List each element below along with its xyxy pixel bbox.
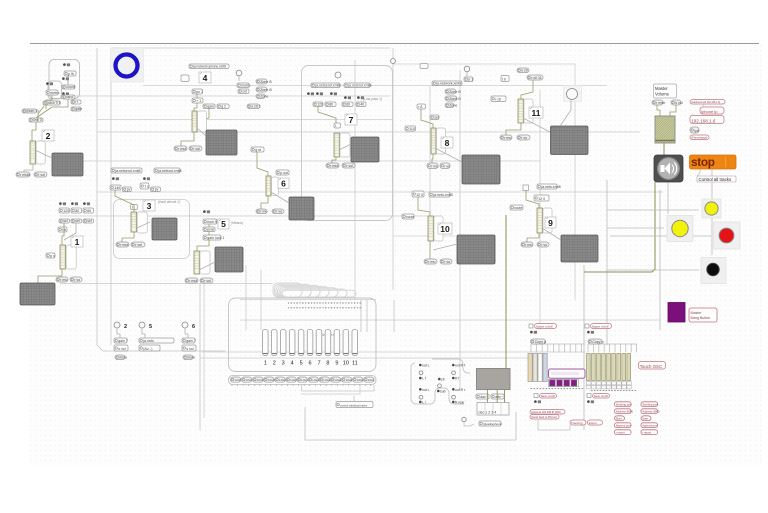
wire preset 5: [142, 328, 145, 338]
svg-text:LtGn: LtGn: [324, 378, 331, 382]
tiny boxes under group B: [587, 382, 632, 389]
message box receive 1b: [70, 277, 82, 282]
svg-text:Save on/off: Save on/off: [541, 394, 555, 398]
wire sec9 b: [527, 233, 539, 242]
svg-text:Address 8000: Address 8000: [616, 410, 634, 414]
svg-text:Copy p: Copy p: [592, 340, 603, 344]
svg-text:+ 1: + 1: [196, 99, 201, 103]
object box pvar 1e: [46, 253, 55, 258]
svg-text:6: 6: [309, 361, 312, 367]
object box random 2d: [62, 95, 75, 99]
message box receive 11a: [500, 135, 512, 140]
dial sec11: [567, 89, 578, 100]
object box num 7a: [313, 102, 323, 107]
toggle touchosc right: [585, 324, 589, 328]
message box receive 11b: [517, 135, 530, 140]
object box t r sec3: [131, 205, 138, 210]
svg-text:2: 2: [124, 324, 127, 330]
gain slider 3: [131, 212, 137, 232]
svg-text:ja.nets: ja.nets: [142, 339, 154, 343]
message box zone B1: [256, 79, 272, 84]
quad label b2b: [452, 400, 465, 404]
radiogroup purple squares: [549, 379, 579, 386]
section 3 glyph b: [143, 177, 150, 180]
track sliders 1-11: [263, 330, 358, 356]
comment master volume: [654, 84, 677, 98]
svg-text:r mu: r mu: [431, 164, 438, 168]
svg-text:LtGn: LtGn: [335, 378, 342, 382]
wire sec9 a: [526, 190, 539, 208]
section 2 tiny glyph a: [63, 63, 70, 66]
svg-text:r vo: r vo: [541, 243, 547, 247]
quad label a2: [419, 388, 430, 392]
svg-text:num 5: num 5: [207, 220, 217, 224]
message box tiny 6: [183, 355, 195, 360]
object box num 10b: [412, 191, 424, 197]
section 7 glyph b: [316, 92, 323, 95]
number panel 5: [200, 251, 210, 274]
wire stop to label: [697, 169, 700, 176]
wire control label up: [353, 396, 355, 401]
svg-text:2: 2: [46, 131, 51, 141]
object box under panel a: [476, 394, 489, 399]
message box receive 5a: [185, 278, 198, 283]
svg-text:r vo: r vo: [444, 260, 450, 264]
wire sec8 b: [432, 154, 433, 163]
wire sec11 dial: [560, 99, 571, 126]
svg-text:ja.netsend.xmt8: ja.netsend.xmt8: [114, 169, 140, 173]
svg-text:Master: Master: [655, 86, 668, 91]
svg-text:r mstr: r mstr: [656, 101, 666, 105]
message gathered ip: [690, 100, 725, 105]
wire preset 6: [185, 328, 188, 338]
wire sec5 b: [208, 231, 210, 235]
message stop button: [690, 155, 737, 169]
message box receive 9a: [521, 242, 533, 247]
svg-text:7: 7: [317, 361, 320, 367]
svg-text:Zone B: Zone B: [449, 90, 461, 94]
object box gain lock 5c: [203, 235, 224, 240]
wire sec1 b: [64, 223, 76, 240]
svg-text:r report: r report: [642, 431, 651, 435]
object box num 7c: [342, 102, 353, 107]
frame vertical x584: [583, 265, 585, 430]
section 7 glyph c: [330, 92, 337, 95]
object box gain 2: [114, 338, 128, 343]
svg-text:120: 120: [317, 102, 323, 106]
frame vertical x200: [199, 283, 201, 430]
wire sec5 d: [199, 262, 215, 270]
pink message column 1: [615, 402, 634, 435]
svg-text:Sending port: Sending port: [642, 403, 658, 407]
number panel 6: [272, 177, 279, 196]
comment control all tracks: [697, 176, 736, 182]
object box num 3a: [110, 185, 121, 190]
gain slider master hatched: [655, 116, 675, 143]
wire sec2 a: [67, 75, 69, 85]
svg-text:mute: mute: [187, 355, 195, 359]
message ipod: [690, 127, 699, 133]
frame vertical x204: [203, 283, 205, 418]
frame line y132: [97, 131, 640, 133]
frame vertical x111: [110, 82, 112, 345]
wire riser x361: [360, 300, 362, 332]
quad label b1: [452, 364, 465, 368]
frame line y236: [393, 235, 455, 237]
svg-text:LtGn: LtGn: [290, 378, 297, 382]
wire bundle patch cords: [273, 283, 356, 297]
object box num 1a: [59, 208, 70, 213]
svg-text:r mute: r mute: [20, 173, 30, 177]
svg-text:dec 1 2 3 4: dec 1 2 3 4: [479, 411, 497, 415]
wire sec7 c: [339, 144, 351, 150]
svg-text:7: 7: [349, 115, 354, 125]
matrixctrl section 5: [215, 247, 243, 272]
number panel 10: [434, 216, 443, 241]
object box sel 1a: [59, 219, 70, 223]
message save on-off left: [540, 394, 557, 399]
frame vertical x660: [659, 190, 661, 330]
message box receive 2b: [34, 172, 47, 177]
object box left 11d: [491, 96, 506, 102]
ezdac speaker button: [654, 155, 683, 182]
wire sec4 a: [238, 76, 240, 81]
message box number 2h: [22, 109, 39, 113]
wire under track boxes b: [301, 385, 360, 394]
glyph save right: [587, 400, 594, 403]
wire riser x367: [366, 300, 368, 332]
quad toggle b1: [452, 371, 456, 375]
number box label 9: [545, 217, 556, 228]
object box plus 4d: [192, 98, 203, 103]
svg-text:10: 10: [440, 224, 450, 234]
svg-text:110: 110: [409, 127, 415, 131]
message ip number: [690, 116, 724, 124]
svg-text:pv: pv: [155, 187, 159, 191]
frame vertical x460: [459, 70, 461, 390]
svg-text:sub: sub: [440, 390, 446, 394]
wire sec11 a: [521, 80, 533, 99]
wire sec5 a: [208, 224, 210, 227]
object box jit network send 7a: [311, 83, 341, 88]
wire sec4 d: [196, 108, 209, 122]
svg-text:192.168.1.6: 192.168.1.6: [691, 118, 716, 123]
dial panel sec11: [564, 86, 582, 102]
svg-text:Bang Button: Bang Button: [691, 316, 711, 320]
wire sec3 b: [122, 232, 134, 242]
svg-text:5: 5: [300, 361, 303, 367]
svg-text:r mu: r mu: [504, 136, 511, 140]
toggle circle sec4: [236, 70, 242, 76]
tick row under track boxes: [232, 385, 371, 387]
object box pvar 5b: [203, 227, 215, 232]
wire sec1 merge: [62, 223, 64, 245]
svg-text:Start: Start: [642, 417, 648, 421]
svg-text:Append port: Append port: [642, 424, 657, 428]
quad label a2b: [419, 400, 427, 404]
frame line y161: [60, 160, 540, 162]
signal wire gain to speaker: [663, 143, 665, 155]
bang button big yellow: [667, 216, 693, 242]
top border line: [30, 43, 759, 45]
svg-text:r vol: r vol: [346, 164, 353, 168]
svg-text:metro: metro: [50, 91, 59, 95]
svg-text:gate: gate: [75, 107, 82, 111]
object box counter 2c: [62, 85, 75, 89]
wire sec7 b: [332, 157, 336, 163]
svg-text:r vol: r vol: [204, 279, 211, 283]
wire sec6 c: [271, 192, 289, 203]
svg-text:5: 5: [221, 219, 226, 229]
object box small left of 4: [181, 75, 189, 82]
wire sec4 c: [194, 103, 197, 111]
toggle blue ring: [116, 55, 138, 77]
object box vol b: [671, 100, 683, 105]
message append ip: [530, 410, 565, 415]
subpatcher frame sec2 a: [49, 60, 80, 99]
svg-text:s vol: s vol: [186, 347, 194, 351]
svg-text:6: 6: [281, 179, 286, 189]
svg-text:LtGn: LtGn: [235, 378, 242, 382]
object box jit network send 3a: [111, 168, 142, 173]
svg-text:ja.network.iphone.xmt8: ja.network.iphone.xmt8: [192, 64, 226, 68]
object box route 8e: [417, 104, 426, 109]
object box sel 8g: [430, 115, 439, 120]
message box receive 7b: [342, 163, 355, 168]
toggle circle sec7: [335, 72, 341, 78]
svg-text:r vo: r vo: [521, 136, 527, 140]
svg-text:s vol: s vol: [675, 101, 683, 105]
frame vertical x393: [392, 48, 394, 290]
subpatcher frame sec7: [302, 66, 393, 221]
wire sec4 e: [181, 132, 194, 146]
svg-text:8: 8: [326, 361, 329, 367]
frame vertical x575: [574, 85, 576, 300]
svg-text:LtGn: LtGn: [368, 378, 375, 382]
object box gain 6: [182, 338, 196, 343]
dashed row left: [531, 388, 584, 390]
message box receive 6a: [256, 209, 267, 214]
preset dial 6: [182, 322, 188, 328]
object box metro 4a: [237, 83, 250, 88]
svg-text:(num 1): (num 1): [26, 109, 38, 113]
message box receive 3b: [131, 242, 145, 247]
section 1 glyph c: [83, 202, 90, 205]
wire sec6 a: [257, 152, 268, 176]
frame vertical x355: [354, 60, 356, 300]
svg-text:r t: r t: [75, 100, 78, 104]
message box tiny 2: [115, 355, 127, 360]
touchosc slider group B: [587, 354, 631, 381]
section 3 glyph a: [112, 177, 119, 180]
counter strip quad: [477, 403, 509, 416]
wire sec8 a: [421, 109, 433, 128]
svg-text:g 2: g 2: [221, 104, 226, 108]
object box num 8f: [405, 126, 416, 131]
svg-text:LtGn: LtGn: [357, 378, 364, 382]
object box number 5a: [203, 219, 217, 224]
wire sec5 c: [197, 240, 209, 251]
object box route 10c: [402, 214, 414, 219]
message box receive 9b: [537, 242, 549, 247]
svg-text:stop: stop: [691, 155, 715, 169]
svg-text:cnt: cnt: [242, 89, 247, 93]
svg-text:r vo: r vo: [276, 209, 282, 213]
svg-text:r mut: r mut: [189, 279, 197, 283]
svg-text:g st: g st: [255, 148, 261, 152]
number box label 2: [42, 130, 54, 141]
quad toggle mid: [438, 384, 442, 388]
bang button small yellow: [702, 199, 721, 218]
svg-text:sel: sel: [434, 115, 439, 119]
glyph touchosc right: [587, 331, 594, 334]
svg-text:1: 1: [264, 361, 267, 367]
svg-text:r vo: r vo: [444, 164, 450, 168]
object box jit network send 8: [432, 81, 462, 86]
message box zone 8c: [445, 103, 457, 108]
svg-text:r 8: r 8: [418, 105, 422, 109]
comment quadraphonic: [479, 421, 503, 426]
number box label 6: [278, 178, 289, 189]
svg-text:40: 40: [360, 102, 364, 106]
object box jit network send 4: [189, 64, 229, 69]
quad dial small: [462, 417, 466, 421]
wire fan right touchosc: [588, 344, 637, 353]
bang button black: [701, 258, 726, 284]
svg-text:LtGn: LtGn: [246, 378, 253, 382]
object box jit send 10a: [429, 192, 453, 197]
matrixctrl section 8: [462, 155, 500, 184]
quad label mid: [438, 378, 446, 382]
message box receive 3a: [116, 242, 129, 247]
svg-text:60: 60: [346, 102, 350, 106]
gain slider 2: [30, 141, 36, 164]
svg-text:iphone ip: iphone ip: [701, 109, 718, 114]
object box metro 2b: [46, 90, 59, 95]
wire sec2 b: [46, 95, 52, 109]
svg-text:Zone B: Zone B: [449, 97, 461, 101]
number box label 3: [143, 200, 155, 211]
message box zone 8a: [445, 89, 461, 94]
number panel 1: [66, 245, 76, 269]
frame line y352: [202, 351, 585, 353]
glyph touchosc left: [530, 331, 537, 334]
inlet bubble x393: [391, 59, 396, 64]
wire sec3 c: [137, 222, 150, 228]
object box jit network send 3b: [154, 168, 182, 173]
svg-text:(Av...): (Av...): [143, 347, 152, 351]
message box receive 1a: [56, 277, 68, 282]
svg-text:Zone: Zone: [449, 103, 457, 107]
object box p 8d: [464, 77, 473, 82]
svg-text:Quadraphonic: Quadraphonic: [483, 422, 502, 426]
message box getted 11c: [527, 75, 543, 80]
svg-text:ja.netsnd.xmt8: ja.netsnd.xmt8: [347, 83, 371, 87]
object box pvar 4b: [192, 89, 203, 94]
message box receive 10a: [424, 259, 437, 264]
object box num 9b: [534, 195, 549, 201]
svg-text:Zone B: Zone B: [260, 88, 272, 92]
wire bottom loop to control-individual-tracks: [305, 407, 516, 440]
object box num 3c: [140, 183, 149, 189]
frame line y120: [97, 119, 393, 121]
svg-text:12 0: 12 0: [416, 193, 423, 197]
message box receive 8a: [427, 163, 438, 169]
master bang purple button: [668, 303, 685, 323]
svg-text:out L: out L: [422, 364, 430, 368]
svg-text:(Send back to iPhone): (Send back to iPhone): [531, 415, 557, 419]
preset dial 2: [114, 322, 120, 328]
svg-text:Space on/off: Space on/off: [592, 324, 609, 328]
comment touch osc: [639, 362, 666, 370]
svg-text:LtGn: LtGn: [279, 378, 286, 382]
wire master vol a: [657, 105, 660, 116]
svg-text:3: 3: [282, 361, 285, 367]
preset dial 5: [139, 322, 145, 328]
wire sec8 toggle: [466, 72, 468, 77]
message box receive 10b: [440, 259, 452, 264]
object copy right: [588, 339, 604, 344]
svg-text:ja.netsend.xmt8: ja.netsend.xmt8: [314, 83, 340, 87]
object copy left: [531, 339, 547, 344]
frame line y320: [240, 319, 660, 321]
message spawn on-off right: [591, 324, 612, 329]
wire sec8 c: [435, 148, 462, 162]
pink message column 2: [641, 402, 660, 435]
wire speaker down: [667, 182, 669, 214]
object box p 6b: [276, 170, 289, 175]
svg-text:pv 1: pv 1: [196, 90, 203, 94]
section 7 glyph e: [357, 96, 364, 99]
wire quad a: [464, 422, 474, 426]
svg-text:out L: out L: [422, 388, 430, 392]
object box num 1c: [83, 208, 94, 213]
object box jit network send 7b: [344, 83, 372, 88]
svg-text:(Append 192.168.IP WiFi): (Append 192.168.IP WiFi): [531, 410, 561, 414]
message box receive 7a: [326, 163, 339, 168]
track slider numbers: [264, 361, 358, 367]
svg-text:s ctl: s ctl: [521, 68, 528, 72]
wire sec1 down to matrix A: [38, 269, 62, 283]
wire sec2 down: [32, 122, 36, 141]
svg-text:Zone B: Zone B: [260, 80, 272, 84]
svg-text:5: 5: [149, 324, 152, 330]
svg-text:9: 9: [548, 218, 553, 228]
number panel 11: [524, 99, 533, 123]
quad label midb: [437, 390, 446, 394]
wire sec3 a: [115, 190, 134, 212]
wire sec2 slider to grid: [24, 164, 33, 172]
svg-text:gain 7: gain 7: [186, 339, 196, 343]
svg-text:out R f: out R f: [455, 364, 465, 368]
svg-text:airport: airport: [589, 421, 597, 425]
object box gain 5: [139, 338, 174, 343]
frame line y358: [200, 357, 530, 359]
number panel 7: [340, 133, 350, 157]
svg-text:3: 3: [147, 201, 152, 211]
svg-text:r mut: r mut: [330, 164, 338, 168]
frame line y64 right: [392, 64, 575, 86]
svg-text:Append port: Append port: [616, 424, 631, 428]
frame line y96: [60, 95, 390, 97]
message freecharge pair a: [570, 420, 586, 425]
svg-text:dac~: dac~: [480, 395, 488, 399]
svg-text:Control all tracks: Control all tracks: [699, 177, 733, 182]
glyph save left: [534, 400, 541, 403]
svg-text:r vo: r vo: [74, 278, 80, 282]
svg-text:r report: r report: [616, 431, 625, 435]
control individual tracks label: [336, 402, 373, 408]
